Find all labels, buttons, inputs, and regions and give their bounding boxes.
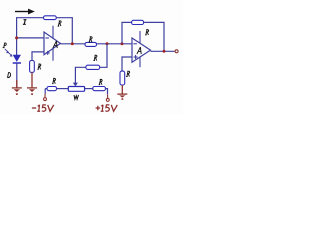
label R (left vertical) <box>37 64 40 69</box>
label R (mid) <box>89 37 92 42</box>
wire R to +15V <box>105 89 107 95</box>
label P <box>3 43 7 48</box>
node feedback2 junction <box>121 42 124 45</box>
label +15V <box>96 106 101 110</box>
wire non-inverting input op1 to R ground <box>32 52 44 61</box>
+15V terminal <box>106 98 109 101</box>
label -15V <box>32 107 36 109</box>
label A (op1) <box>53 41 57 48</box>
wire op2 output <box>151 50 175 52</box>
current arrow I <box>15 9 35 15</box>
potentiometer W <box>68 87 84 92</box>
label R (right vertical) <box>126 71 129 76</box>
resistor R (bottom left) <box>47 87 57 91</box>
node branch to offset resistor <box>106 42 109 45</box>
wire feedback loop op2 right <box>144 22 164 51</box>
pot wiper arrow <box>73 83 78 87</box>
wire top rail right + feedback drop <box>56 18 72 44</box>
resistor R1 (top feedback) <box>44 16 57 20</box>
wire op1 output line <box>60 43 132 45</box>
light arrow 2 <box>8 52 12 56</box>
label D <box>8 72 11 77</box>
wire op2 + input down to ground resistor <box>122 57 132 71</box>
resistor R (series, mid) <box>85 42 97 46</box>
node op1 output/feedback <box>71 42 74 45</box>
ground (under right R) <box>117 94 127 100</box>
light arrow 1 <box>5 49 9 53</box>
wire resistor to ground 3 <box>121 85 123 94</box>
wire offset R to pot wiper <box>75 67 86 83</box>
wire branch down to offset R <box>100 44 107 68</box>
label I <box>23 20 27 25</box>
wire -15V to R <box>45 88 47 90</box>
label R (offset) <box>93 55 96 60</box>
resistor R (offset, lower) <box>86 65 100 69</box>
wire left rail and top feedback rail <box>17 18 44 55</box>
ground (under photodiode) <box>12 80 22 95</box>
wire pot to R <box>85 88 93 90</box>
label R (top) <box>58 21 61 26</box>
label R (op2 feedback) <box>145 30 148 35</box>
label R (bottom right) <box>99 79 102 84</box>
op-amp U2 <box>132 31 151 67</box>
node at diode/input junction <box>15 36 18 39</box>
ground (under left R) <box>27 88 37 95</box>
op-amp U1 <box>44 26 60 61</box>
output terminal <box>175 50 178 53</box>
label A (op2) <box>137 47 141 54</box>
wire resistor to ground <box>31 72 33 87</box>
photodiode D <box>13 55 21 88</box>
label W <box>74 95 79 99</box>
node output/feedback <box>163 50 166 53</box>
resistor R (op2 + to ground) <box>120 71 125 85</box>
wire R to pot <box>57 88 69 90</box>
wire inverting input op1 <box>17 37 44 39</box>
wire feedback loop op2 left+top <box>122 22 132 43</box>
resistor R (bottom right) <box>93 87 106 91</box>
resistor R (op2 feedback) <box>132 20 144 24</box>
label R (bottom left) <box>52 78 55 83</box>
resistor R (op1 + input to ground) <box>30 61 35 73</box>
-15V terminal <box>44 89 47 101</box>
